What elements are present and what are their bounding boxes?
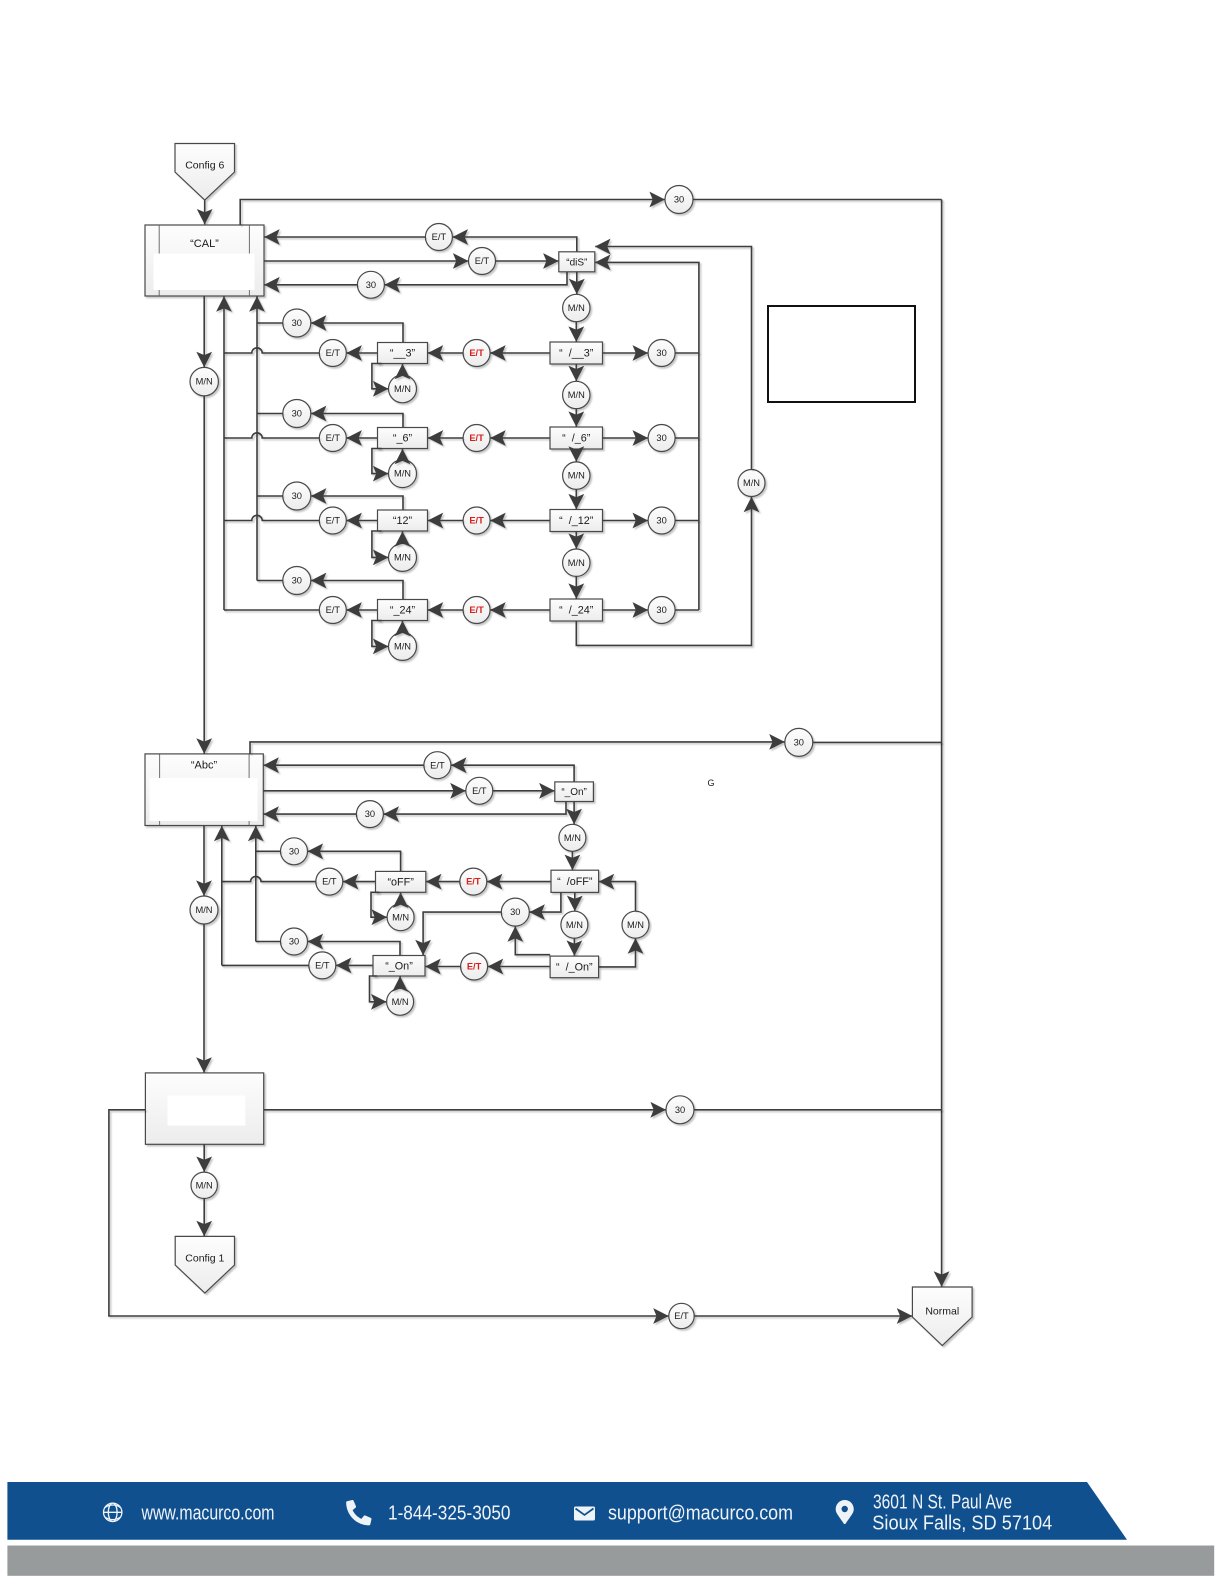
svg-text:30: 30 [675, 1105, 685, 1115]
wire /_On box to red E/T [488, 966, 550, 968]
svg-text:E/T: E/T [322, 877, 337, 887]
svg-text:support@macurco.com: support@macurco.com [608, 1503, 793, 1525]
wire oFF box loop down to M/N [371, 892, 387, 917]
legend empty rectangle [768, 306, 915, 402]
wire M/N third to Config 1 pentagon [203, 1199, 205, 1237]
wire 30 row3 to 30-loop vertical [675, 520, 699, 522]
svg-text:M/N: M/N [196, 1180, 213, 1190]
circle E/T row1 left [319, 340, 346, 367]
circle E/T CAL-to-diS [469, 248, 496, 275]
wire 30-column vertical up into CAL bottom [256, 296, 258, 580]
svg-text:30: 30 [510, 907, 520, 917]
circle E/T red row3 [463, 507, 490, 534]
wire chain M/N down to /_On box [573, 938, 575, 956]
circle E/T return-to-CAL [425, 224, 452, 251]
icon envelope [574, 1507, 595, 1521]
svg-text:“_On”: “_On” [561, 787, 587, 798]
wire 30 third row to right spine [694, 1109, 942, 1111]
wire E/T On row2 to E/T-column [222, 964, 309, 966]
wire chain M/N to right box row3 [575, 489, 577, 509]
circle E/T On row2 [309, 952, 336, 979]
svg-text:M/N: M/N [195, 905, 212, 915]
wire 30 circle to CAL right edge [264, 284, 357, 286]
wire 30 Abc top to right spine [813, 741, 942, 743]
svg-text:E/T: E/T [475, 256, 490, 266]
wire _On top to E/T return circle [451, 765, 574, 782]
svg-text:M/N: M/N [394, 469, 411, 479]
wire row4 box bottom loop to M/N right [576, 497, 751, 646]
circle 30 middle [501, 898, 529, 926]
wire row3 left box to E/T circle [347, 520, 378, 522]
process box third (blank) with white overlay [145, 1073, 263, 1144]
wire 30 middle to _On left box top [423, 912, 501, 955]
icon phone [346, 1500, 371, 1525]
circle M/N loop row2 [389, 460, 417, 488]
svg-text:E/T: E/T [326, 605, 341, 615]
wire chain M/N to right box row4 [575, 576, 577, 598]
svg-text:“ /oFF”: “ /oFF” [557, 876, 593, 888]
circle 30 row1 right [648, 340, 675, 367]
wire 30 top to right spine [693, 199, 942, 201]
wire _On bottom to 30 return circle [384, 802, 566, 815]
svg-text:“diS”: “diS” [566, 257, 587, 268]
circle M/N third [191, 1172, 217, 1198]
circle M/N loop On row2 [387, 988, 414, 1015]
box state right row2 [550, 427, 603, 449]
wire M/N loop row3 up into box [402, 531, 404, 543]
svg-text:30: 30 [656, 348, 666, 358]
circle M/N spine Abc-to-third [190, 896, 218, 924]
circle 30 row2 left [283, 400, 311, 428]
box /_On right row2 [550, 956, 599, 978]
wire E/T circle to Abc right edge [264, 764, 424, 766]
svg-text:“ /__3”: “ /__3” [559, 348, 594, 360]
wire _On left box top to 30 circle [308, 942, 400, 956]
wire diS bottom to 30 return circle [385, 272, 567, 285]
svg-text:M/N: M/N [394, 384, 411, 394]
wire 30 row1 to 30-column [257, 322, 283, 324]
wire spine M/N down to third box [203, 924, 205, 1073]
wire M/N loop row4 up into box [402, 621, 404, 633]
wire Abc right edge to E/T circle (forward) [263, 790, 465, 792]
circle 30 row3 left [283, 482, 311, 510]
svg-text:E/T: E/T [430, 760, 445, 770]
svg-text:30: 30 [365, 809, 375, 819]
wire diS bottom to M/N chain circle [576, 272, 578, 294]
wire red E/T to left box row1 [428, 352, 463, 354]
wire M/N loop oFF up into box [400, 893, 402, 904]
box state right row3 [550, 510, 603, 532]
wire E/T row3 to E/T-column with crossover bump [224, 515, 319, 520]
svg-text:E/T: E/T [466, 877, 481, 887]
svg-text:“oFF”: “oFF” [387, 876, 414, 888]
circle 30 third row [666, 1096, 694, 1124]
circle E/T red row4 [463, 597, 490, 624]
wire CAL right edge to E/T circle (forward) [264, 260, 468, 262]
box _On left row2 [373, 956, 425, 977]
svg-text:M/N: M/N [568, 390, 585, 400]
circle 30 top [665, 186, 693, 214]
wire 30 row1 to 30-loop vertical [675, 352, 699, 354]
circle E/T oFF row [316, 868, 343, 895]
wire diS top to E/T return circle [453, 237, 577, 252]
wire chain M/N to right box row2 [575, 409, 577, 427]
wire right box row1 to red E/T [490, 352, 550, 354]
box state left row3 [378, 510, 428, 531]
wire 30 circle to Abc right edge [264, 813, 357, 815]
process box Abc with side bars and white overlay [145, 754, 263, 826]
circle E/T row3 left [319, 507, 346, 534]
circle 30 oFF row [281, 838, 308, 865]
wire 30 row2 to 30-loop vertical [675, 437, 699, 439]
svg-text:E/T: E/T [326, 516, 341, 526]
wire red E/T to _On left box [425, 966, 460, 968]
svg-text:M/N: M/N [627, 920, 644, 930]
wire right box row1 down to chain M/N [575, 364, 577, 381]
wire spine M/N down to Abc box [203, 396, 205, 754]
svg-text:M/N: M/N [564, 833, 581, 843]
wire left box row2 loop down to M/N [372, 449, 388, 474]
svg-text:Config 1: Config 1 [185, 1253, 224, 1265]
svg-text:E/T: E/T [326, 348, 341, 358]
circle M/N loop oFF [387, 904, 414, 931]
wire row2 box top to 30 circle [311, 414, 403, 428]
svg-text:30: 30 [794, 738, 804, 748]
wire E/T circle to CAL right edge [264, 236, 425, 238]
wire 30 row3 to 30-column [257, 495, 283, 497]
box state left row4 [378, 600, 428, 621]
wire right box row2 down to chain M/N [575, 449, 577, 462]
circle 30 row4 right [648, 597, 675, 624]
svg-text:G: G [707, 778, 714, 788]
svg-text:“ /_24”: “ /_24” [559, 605, 594, 617]
footer gray bar [7, 1546, 1214, 1576]
svg-text:M/N: M/N [392, 912, 409, 922]
wire _On bottom to M/N [573, 802, 575, 825]
icon location pin [836, 1500, 854, 1524]
wire Abc top to 30 circle heading right [250, 742, 785, 754]
svg-text:“CAL”: “CAL” [190, 238, 219, 250]
wire row1 box top to 30 circle [311, 323, 403, 343]
box state right row1 [550, 342, 603, 364]
wire right box row4 to red E/T [490, 609, 550, 611]
wire /_On top-left to 30 middle circle [515, 926, 550, 954]
circle E/T red On row2 [461, 953, 488, 980]
box oFF left [376, 871, 426, 892]
box state left row2 [378, 428, 428, 449]
terminator pentagon Config 6 [175, 144, 235, 201]
circle E/T Abc-to-On [466, 777, 493, 804]
wire E/T circle to diS box [496, 260, 559, 262]
circle E/T bottom [669, 1303, 694, 1328]
wire _On left box loop down to M/N [370, 976, 387, 1002]
svg-text:3601 N St. Paul Ave: 3601 N St. Paul Ave [873, 1492, 1012, 1514]
svg-text:“ /_6”: “ /_6” [562, 433, 591, 445]
circle E/T row4 left [319, 597, 346, 624]
circle 30 row1 left [283, 309, 311, 337]
circle E/T row2 left [319, 425, 346, 452]
wire Abc bottom to spine M/N 2 [203, 826, 205, 896]
svg-text:“__3”: “__3” [390, 348, 416, 360]
wire left box row3 loop down to M/N [372, 531, 388, 557]
circle M/N chain 1 [563, 381, 590, 408]
circle 30 On row2 [281, 928, 308, 955]
svg-text:Sioux Falls, SD 57104: Sioux Falls, SD 57104 [872, 1513, 1052, 1535]
circle M/N below _On [559, 824, 586, 851]
wire right box row2 to 30 circle [603, 437, 648, 439]
svg-text:www.macurco.com: www.macurco.com [141, 1503, 275, 1525]
circle M/N right Abc [622, 911, 649, 938]
wire oFF box to E/T circle [343, 881, 375, 883]
svg-text:M/N: M/N [566, 920, 583, 930]
wire M/N down to /oFF box [571, 851, 573, 870]
svg-text:“_On”: “_On” [385, 960, 413, 972]
circle M/N right loop [738, 470, 765, 497]
wire red E/T to oFF box [426, 881, 460, 883]
wire right box row2 to red E/T [490, 437, 550, 439]
wire red E/T to left box row2 [428, 437, 463, 439]
box state right row4 [550, 599, 603, 621]
wire E/T row2 to E/T-column with crossover bump [224, 433, 319, 438]
svg-text:30: 30 [656, 516, 666, 526]
circle E/T red oFF row [460, 868, 487, 895]
circle 30 row4 left [283, 567, 311, 595]
process box CAL with side bars and white overlay [145, 225, 264, 296]
wire row3 box top to 30 circle [311, 496, 403, 510]
svg-text:30: 30 [366, 280, 376, 290]
wire /oFF bottom to chain M/N [574, 892, 576, 911]
wire E/T oFF row to E/T-column with crossover bump [222, 876, 316, 881]
wire M/N right up to /oFF right edge [599, 882, 636, 912]
circle 30 Abc top [785, 728, 813, 756]
svg-text:E/T: E/T [469, 516, 484, 526]
wire E/T row4 to E/T-column [224, 609, 319, 611]
wire M/N loop row2 up into box [402, 449, 404, 460]
wire M/N loop On row2 up into box [399, 976, 401, 988]
svg-text:M/N: M/N [568, 558, 585, 568]
box state left row1 [378, 343, 428, 364]
svg-text:“ /_On”: “ /_On” [556, 961, 593, 973]
wire Abc 30-column vertical up into Abc bottom [255, 826, 257, 942]
wire left box row4 loop down to M/N [372, 621, 388, 647]
svg-text:30: 30 [292, 318, 302, 328]
svg-text:E/T: E/T [467, 962, 482, 972]
circle M/N loop row3 [389, 543, 417, 571]
circle M/N below diS [563, 294, 590, 321]
svg-text:“ /_12”: “ /_12” [559, 515, 594, 527]
circle E/T return-to-Abc [424, 752, 451, 779]
svg-text:M/N: M/N [392, 997, 409, 1007]
wire right box row3 to red E/T [490, 520, 550, 522]
circle E/T red row1 [463, 340, 490, 367]
wire row4 box top to 30 circle [311, 581, 403, 600]
wire E/T row1 to E/T-column with crossover bump [224, 348, 319, 353]
wire M/N to box /__3 [575, 322, 577, 342]
wire /oFF box to red E/T [487, 881, 551, 883]
wire row4 left box to E/T circle [347, 609, 378, 611]
wire Config6 to CAL box [204, 201, 206, 225]
wire right box row4 to 30 circle [603, 609, 648, 611]
svg-text:M/N: M/N [743, 478, 760, 488]
svg-text:30: 30 [656, 433, 666, 443]
wire E/T circle to _On box [493, 790, 555, 792]
wire CAL top to 30 circle (top) heading right [240, 200, 665, 226]
footer blue banner [7, 1482, 1127, 1540]
svg-text:30: 30 [292, 409, 302, 419]
svg-text:M/N: M/N [394, 642, 411, 652]
circle 30 row3 right [648, 507, 675, 534]
svg-text:“_6”: “_6” [393, 433, 413, 445]
box _On top [555, 782, 594, 802]
wire row2 left box to E/T circle [347, 437, 378, 439]
svg-text:Normal: Normal [925, 1306, 959, 1318]
svg-text:Config 6: Config 6 [185, 160, 224, 172]
wire row1 left box to E/T circle [347, 352, 378, 354]
wire 30-loop vertical up to diS right edge [595, 262, 699, 610]
svg-text:30: 30 [289, 937, 299, 947]
svg-text:“Abc”: “Abc” [191, 760, 218, 772]
wire third box right to 30 circle [264, 1109, 666, 1111]
wire /_On right edge loop to M/N right [599, 939, 636, 967]
wire 30 row4 to 30-column [257, 580, 283, 582]
svg-text:30: 30 [656, 605, 666, 615]
wire _On left box to E/T circle [336, 964, 373, 966]
wire red E/T to left box row3 [428, 520, 463, 522]
wire M/N right loop up to diS right edge [595, 247, 751, 470]
wire E/T bottom to Normal pentagon [694, 1315, 912, 1317]
wire M/N loop row1 up into box [402, 364, 404, 375]
circle M/N loop row4 [389, 632, 417, 660]
circle 30 row2 right [648, 425, 675, 452]
terminator pentagon Config 1 [175, 1236, 234, 1293]
svg-text:M/N: M/N [568, 303, 585, 313]
svg-text:E/T: E/T [469, 433, 484, 443]
wire oFF box top to 30 circle [308, 851, 401, 871]
svg-text:30: 30 [292, 491, 302, 501]
svg-text:30: 30 [674, 195, 684, 205]
wire E/T-column vertical up into CAL bottom [223, 296, 225, 610]
svg-text:M/N: M/N [196, 377, 213, 387]
circle 30 diS-to-CAL [357, 271, 384, 298]
svg-text:M/N: M/N [568, 471, 585, 481]
icon globe [104, 1503, 122, 1521]
svg-text:E/T: E/T [432, 232, 447, 242]
box diS [559, 252, 595, 272]
circle M/N chain Abc [561, 911, 588, 938]
circle E/T red row2 [463, 425, 490, 452]
svg-text:“12”: “12” [393, 515, 413, 527]
svg-text:E/T: E/T [674, 1311, 689, 1321]
terminator pentagon Normal [912, 1287, 972, 1346]
wire left box row1 loop down to M/N [372, 364, 388, 389]
box /oFF right [551, 870, 599, 892]
wire right box row1 to 30 circle [603, 352, 648, 354]
circle M/N chain 2 [563, 462, 590, 489]
svg-text:M/N: M/N [394, 553, 411, 563]
circle M/N loop row1 [389, 375, 417, 403]
svg-text:“_24”: “_24” [390, 605, 416, 617]
wire /oFF bottom-left to 30 middle circle [530, 892, 561, 912]
wire right box row3 to 30 circle [603, 520, 648, 522]
svg-text:E/T: E/T [469, 348, 484, 358]
circle M/N spine CAL-to-Abc [190, 367, 218, 395]
svg-text:1-844-325-3050: 1-844-325-3050 [388, 1503, 511, 1525]
svg-text:E/T: E/T [472, 786, 487, 796]
svg-text:30: 30 [292, 576, 302, 586]
wire CAL bottom to spine M/N [203, 296, 205, 367]
wire third box left down to E/T bottom circle [109, 1110, 669, 1316]
wire 30 oFF row to 30-column [256, 850, 281, 852]
circle 30 On-to-Abc [356, 801, 383, 828]
svg-text:E/T: E/T [326, 433, 341, 443]
wire red E/T to left box row4 [428, 609, 463, 611]
circle M/N chain 3 [563, 549, 590, 576]
wire third box bottom to M/N [203, 1144, 205, 1172]
svg-text:E/T: E/T [315, 961, 330, 971]
svg-text:E/T: E/T [469, 605, 484, 615]
wire 30 On row2 to 30-column [256, 941, 281, 943]
wire Abc E/T-column vertical up into Abc bottom [221, 826, 223, 966]
wire 30 row4 to 30-loop vertical [675, 609, 699, 611]
wire 30 row2 to 30-column [257, 413, 283, 415]
svg-text:30: 30 [289, 846, 299, 856]
wire right box row3 down to chain M/N [575, 532, 577, 549]
wire right spine vertical down to Normal [941, 200, 943, 1287]
